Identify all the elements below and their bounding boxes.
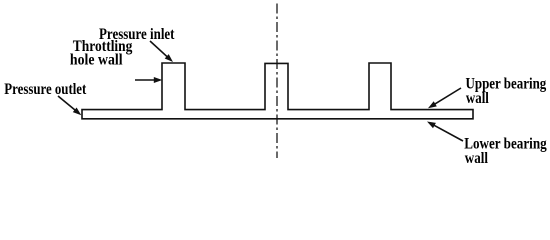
svg-text:Pressure outlet: Pressure outlet [4, 81, 87, 98]
svg-text:wall: wall [465, 150, 489, 167]
arrow: upper bearing wall leader [428, 88, 461, 108]
centerline (vertical dash-dot axis) [276, 4, 278, 159]
arrow: lower bearing wall leader [427, 122, 463, 142]
arrow: pressure outlet leader [58, 96, 81, 115]
bearing profile outline (upper wall with three throttling holes) [82, 63, 473, 119]
svg-text:wall: wall [466, 90, 490, 107]
svg-text:hole wall: hole wall [70, 52, 123, 69]
arrow: throttling hole wall leader [135, 77, 162, 83]
arrow: pressure inlet leader [150, 41, 173, 62]
